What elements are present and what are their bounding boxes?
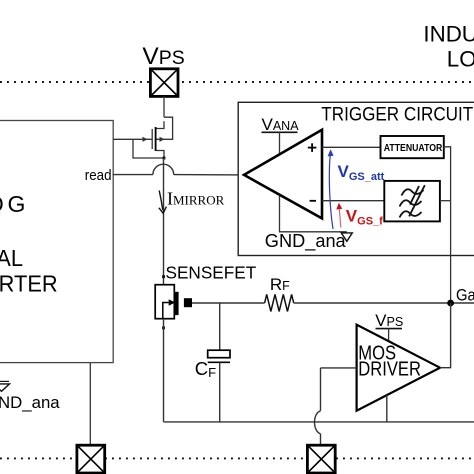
- arrow VGS_att (blue): [328, 149, 334, 229]
- svg-text:SENSEFET: SENSEFET: [166, 263, 257, 283]
- wire comparator + input to attenuator: [322, 146, 381, 148]
- wire comparator - input to filter: [322, 200, 386, 202]
- wire bottom horizontal rail: [164, 421, 474, 423]
- wire driver input left: [321, 367, 357, 369]
- wire RF to gate node: [294, 302, 474, 304]
- node GND rail (bottom dotted line): [0, 457, 474, 459]
- connector X3 bottom crossed box (block return): [77, 445, 105, 473]
- wire driver input down with hop: [315, 368, 321, 445]
- wire read line with hop over mirror wire: [113, 164, 245, 175]
- block U1 converter (left big block): [0, 121, 113, 363]
- ground GND_ana (trigger circuit): [341, 233, 352, 241]
- svg-text:read: read: [85, 166, 112, 183]
- junction gate node dot: [447, 300, 454, 307]
- label IMIRROR: [167, 188, 225, 208]
- label CF: [195, 358, 216, 380]
- junction sensefet bottom terminal: [162, 326, 165, 329]
- label VGS_f (red): [346, 207, 383, 228]
- svg-text:TRIGGER CIRCUIT: TRIGGER CIRCUIT: [321, 104, 473, 125]
- resistor RF: [265, 294, 294, 311]
- current arrow IMIRROR: [159, 191, 167, 214]
- label read: [85, 166, 112, 183]
- label VPS (top supply): [142, 43, 184, 70]
- svg-text:G: G: [8, 191, 26, 217]
- wire block to bottom crossed box: [89, 363, 91, 446]
- svg-text:VPS: VPS: [142, 43, 184, 70]
- wire comparator ground: [280, 196, 347, 232]
- svg-text:INDUCTIVE: INDUCTIVE: [423, 22, 474, 47]
- label GND_ana: [265, 231, 347, 252]
- box trigger circuit: [238, 102, 474, 255]
- supply bar VPS to driver: [376, 329, 403, 342]
- svg-text:LOAD: LOAD: [447, 46, 474, 71]
- label GND_ana (left, clipped): [0, 393, 60, 412]
- svg-text:O: O: [0, 191, 4, 217]
- wire driver output to gate node: [440, 303, 451, 368]
- wire CF branch: [219, 303, 221, 350]
- svg-text:RTER: RTER: [0, 270, 58, 297]
- wire mirror to sensefet (IMIRROR net): [163, 158, 165, 285]
- box filter (low-pass): [384, 181, 440, 222]
- capacitor CF: [208, 350, 230, 362]
- arrow VGS_f (red): [336, 203, 342, 228]
- label SENSEFET: [166, 263, 257, 283]
- op-amp U2 comparator: [244, 130, 322, 219]
- label VANA: [262, 115, 300, 134]
- connector X2 bottom crossed box (driver return): [307, 445, 335, 473]
- transistor M1 current mirror (PMOS): [113, 117, 173, 159]
- svg-text:ATTENUATOR: ATTENUATOR: [384, 142, 443, 154]
- svg-text:DRIVER: DRIVER: [358, 357, 421, 380]
- svg-text:AL: AL: [0, 244, 23, 271]
- svg-text:GND_ana: GND_ana: [0, 393, 60, 412]
- wire CF to bottom rail: [219, 362, 221, 422]
- svg-text:GND_ana: GND_ana: [265, 231, 347, 252]
- label VGS_att (blue): [338, 162, 385, 183]
- box attenuator: [381, 136, 444, 158]
- wire attenuator to gate sense line: [444, 147, 451, 201]
- svg-text:Gate: Gate: [456, 286, 474, 304]
- wire sensefet source down: [163, 319, 165, 422]
- ground symbol at block (left): [0, 381, 10, 391]
- wire VPS box to mirror transistor: [163, 96, 165, 117]
- connector X1 VPS crossed box: [150, 69, 178, 97]
- label RF: [270, 275, 290, 294]
- wire sensefet sense tap to RF: [192, 302, 265, 304]
- transistor Q1 SENSEFET: [155, 285, 192, 319]
- supply bar VANA to comparator: [262, 132, 298, 155]
- junction sensefet top terminal: [162, 275, 165, 278]
- wire driver bottom to rail: [386, 395, 388, 422]
- node VPS supply rail (top dotted line): [0, 81, 474, 83]
- wire filter to gate sense line: [440, 200, 451, 202]
- amplifier U3 MOS driver: [357, 325, 440, 411]
- wire gate sense vertical: [450, 201, 452, 303]
- label Gate: [456, 286, 474, 304]
- label INDUCTIVE LOAD: [423, 22, 474, 72]
- label TRIGGER CIRCUIT: [321, 104, 473, 125]
- label VPS (driver supply): [375, 311, 403, 330]
